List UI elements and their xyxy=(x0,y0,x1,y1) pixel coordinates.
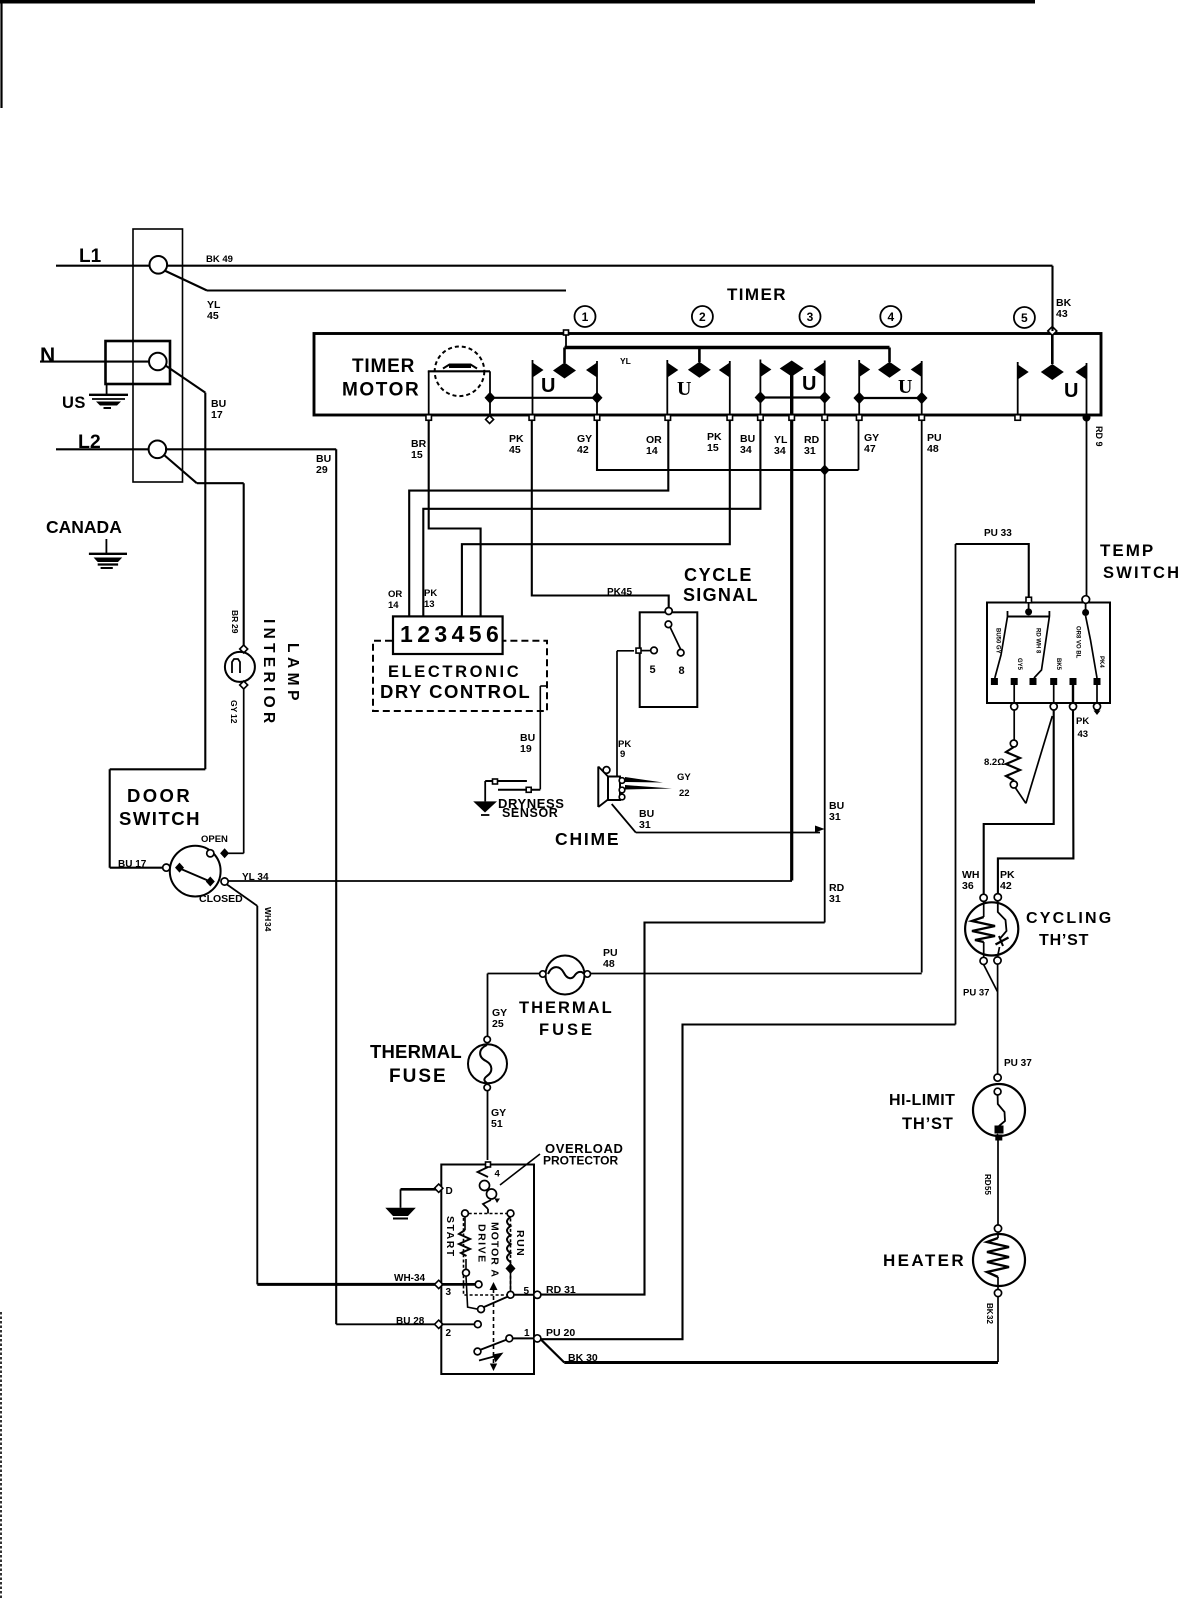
terminal hi-limit top xyxy=(994,1088,1001,1095)
wire WH-34 diagonal from door switch xyxy=(227,885,257,906)
chime needle 1 xyxy=(625,777,663,783)
terminal BK-43 on timer box top xyxy=(1048,327,1057,336)
terminal heater bottom xyxy=(994,1289,1001,1296)
wire ground link terminal D xyxy=(401,1188,437,1191)
hi-limit contact blob xyxy=(995,1126,1004,1134)
terminal GY-51 on motor box xyxy=(486,1162,491,1167)
terminal temp switch top left xyxy=(1026,597,1032,603)
thermal fuse F2 circle xyxy=(468,1044,507,1083)
svg-text:5: 5 xyxy=(1021,311,1028,325)
temp switch pad stubs to bottom edge xyxy=(1013,685,1015,703)
svg-text:48: 48 xyxy=(603,958,615,970)
timer terminal 5 circled xyxy=(1014,307,1035,328)
terminal on electrode xyxy=(493,779,498,784)
cycling heater resistor xyxy=(983,901,985,917)
mechanical linkage dashed xyxy=(493,1289,495,1366)
terminal cycle signal top xyxy=(665,608,672,615)
fuse2 element wave xyxy=(480,1045,491,1083)
wire BU-17 horizontal xyxy=(110,768,206,770)
svg-text:THERMAL: THERMAL xyxy=(370,1041,462,1062)
wire to terminal 1 xyxy=(512,1337,536,1339)
terminal lower blade contact xyxy=(474,1348,481,1355)
door switch closed contact xyxy=(206,877,215,887)
terminal 1 motor xyxy=(534,1335,541,1342)
ground motor xyxy=(400,1189,402,1208)
wire BU-31 from chime xyxy=(612,804,636,833)
terminal 5 junction xyxy=(507,1291,514,1298)
svg-text:PK: PK xyxy=(424,588,437,599)
svg-text:43: 43 xyxy=(1078,729,1089,740)
svg-text:36: 36 xyxy=(962,880,974,892)
door switch open contact xyxy=(207,850,214,857)
wire lamp down to open contact xyxy=(243,689,245,846)
svg-text:OR8 VO BL: OR8 VO BL xyxy=(1075,626,1081,659)
terminal temp switch bottom 3 xyxy=(1070,703,1077,710)
timer motor winding bar xyxy=(449,364,471,369)
wire V diagonal to WH-36 wire xyxy=(1026,716,1052,803)
svg-text:D: D xyxy=(446,1186,453,1197)
svg-text:DRIVE: DRIVE xyxy=(476,1224,488,1264)
timer switch S2 xyxy=(665,348,733,421)
svg-text:FUSE: FUSE xyxy=(389,1066,448,1087)
temp switch left bar xyxy=(1008,616,1050,618)
svg-text:RD 31: RD 31 xyxy=(546,1284,576,1296)
temp switch right common xyxy=(1082,609,1089,616)
svg-text:43: 43 xyxy=(1056,308,1068,320)
svg-text:15: 15 xyxy=(411,449,423,461)
timer switch S1 xyxy=(529,348,602,421)
chime xyxy=(598,767,620,808)
svg-text:FUSE: FUSE xyxy=(539,1021,595,1039)
svg-text:MOTOR: MOTOR xyxy=(342,380,420,401)
terminal N xyxy=(149,353,167,371)
junction run winding xyxy=(506,1263,516,1274)
wire timer motor horizontal xyxy=(428,370,490,372)
svg-text:42: 42 xyxy=(577,444,589,456)
wire YL-45 diagonal from L1 xyxy=(165,271,208,291)
wire YL-34 door to timer xyxy=(229,880,793,882)
wire WH-36 from temp switch xyxy=(984,710,1054,894)
temp switch contact pads xyxy=(991,678,998,685)
wire terminal 2 internal xyxy=(441,1323,474,1325)
svg-text:34: 34 xyxy=(774,445,786,457)
timer switch S3 xyxy=(755,360,831,421)
wire GY-47 drop xyxy=(858,420,860,470)
timer terminal 4 circled xyxy=(880,306,901,327)
terminal door common xyxy=(163,864,170,871)
svg-text:9: 9 xyxy=(620,749,625,760)
hi-limit thermostat circle xyxy=(973,1084,1025,1136)
svg-text:42: 42 xyxy=(1000,880,1012,892)
svg-text:TH’ST: TH’ST xyxy=(1039,932,1089,949)
scan artifact left edge top xyxy=(0,0,2,108)
svg-text:29: 29 xyxy=(316,464,328,476)
cycling thermostat circle xyxy=(965,902,1018,955)
terminal 3 motor xyxy=(435,1280,443,1288)
terminal 1 junction xyxy=(506,1335,513,1342)
dryness sensor electrode top xyxy=(485,780,527,782)
svg-text:2: 2 xyxy=(446,1328,452,1339)
svg-text:ELECTRONIC: ELECTRONIC xyxy=(388,663,521,681)
svg-text:45: 45 xyxy=(207,310,219,322)
wire YL-45 horizontal xyxy=(207,289,566,291)
svg-text:4: 4 xyxy=(887,310,894,324)
cycling contact cross xyxy=(996,938,1009,945)
svg-text:PROTECTOR: PROTECTOR xyxy=(543,1154,618,1168)
terminal on lower electrode xyxy=(526,787,531,792)
wire BK-30 heater to motor xyxy=(564,1361,998,1364)
svg-text:TEMP: TEMP xyxy=(1100,541,1155,560)
svg-text:5: 5 xyxy=(524,1286,530,1297)
svg-text:CLOSED: CLOSED xyxy=(199,893,243,905)
svg-text:BU50 GY: BU50 GY xyxy=(995,628,1001,654)
wire PU-48 drop xyxy=(921,420,923,973)
wire PU-20 lower run xyxy=(540,1025,956,1340)
terminal 2 motor xyxy=(435,1320,443,1328)
svg-text:48: 48 xyxy=(927,443,939,455)
wire PU-33 link xyxy=(956,544,1029,597)
wire cycle signal to chime PK-9 xyxy=(641,650,651,652)
svg-text:34: 34 xyxy=(263,922,273,932)
svg-text:THERMAL: THERMAL xyxy=(519,999,614,1017)
wire PK-45 to cycle signal xyxy=(532,420,669,608)
thermal fuse F1 circle xyxy=(546,956,585,995)
svg-text:25: 25 xyxy=(492,1018,504,1030)
svg-text:31: 31 xyxy=(829,893,841,905)
svg-text:LAMP: LAMP xyxy=(284,643,301,705)
terminal lamp top xyxy=(240,645,248,653)
wire L2 in xyxy=(56,448,150,450)
svg-text:CANADA: CANADA xyxy=(46,517,122,537)
wire BK-30 diagonal to motor terminal 1 xyxy=(540,1339,564,1363)
wire terminal 3 internal xyxy=(441,1283,475,1286)
wire BU-17 left vertical xyxy=(109,769,111,867)
svg-text:2: 2 xyxy=(699,310,706,324)
svg-text:WH: WH xyxy=(263,907,273,921)
cycle signal contact 8 xyxy=(677,649,684,656)
svg-text:8.2Ω: 8.2Ω xyxy=(984,757,1005,768)
svg-text:51: 51 xyxy=(491,1118,503,1130)
terminal heater top xyxy=(994,1225,1001,1232)
wire BR-15 motor left leg xyxy=(428,371,430,415)
ground US xyxy=(106,384,108,394)
terminal block strip xyxy=(133,229,183,482)
wire RD-31 vertical xyxy=(824,420,826,923)
cycle signal box xyxy=(640,612,698,707)
terminal cycling bottom left xyxy=(980,957,987,964)
svg-text:PU 37: PU 37 xyxy=(963,988,989,999)
terminal fuse2 top xyxy=(484,1036,490,1042)
temp switch blade mid xyxy=(1034,617,1049,679)
heater element zigzag xyxy=(997,1232,999,1238)
svg-text:PK45: PK45 xyxy=(607,587,632,598)
wire lamp feed diagonal from L2 xyxy=(164,455,197,484)
ground dryness sensor xyxy=(473,801,497,812)
svg-text:START: START xyxy=(444,1216,456,1258)
wire BR-29 lamp vertical xyxy=(243,483,245,646)
svg-text:SWITCH: SWITCH xyxy=(1103,564,1181,582)
svg-text:4: 4 xyxy=(495,1169,501,1180)
overload leader line xyxy=(500,1154,540,1185)
svg-text:DRY CONTROL: DRY CONTROL xyxy=(380,681,531,702)
wire RD-55 hi-limit to heater xyxy=(997,1140,999,1225)
cycle signal switch pivot xyxy=(665,621,672,628)
terminal cycle signal left xyxy=(636,648,641,653)
svg-text:29: 29 xyxy=(230,624,240,634)
svg-text:CYCLING: CYCLING xyxy=(1026,910,1113,927)
svg-text:BR: BR xyxy=(230,610,240,622)
neutral terminal box xyxy=(106,341,171,384)
svg-text:55: 55 xyxy=(983,1186,992,1195)
svg-text:TIMER: TIMER xyxy=(352,356,415,377)
terminal chime right 1 xyxy=(619,778,625,784)
wire RD-9 drop to temp switch xyxy=(1086,420,1088,597)
svg-text:TIMER: TIMER xyxy=(727,285,787,304)
svg-text:TH’ST: TH’ST xyxy=(902,1115,954,1133)
chime needle 2 xyxy=(625,785,672,790)
terminal fuse1 left xyxy=(540,971,546,977)
svg-text:U: U xyxy=(802,373,816,395)
svg-text:3: 3 xyxy=(446,1287,452,1298)
svg-text:OPEN: OPEN xyxy=(201,834,228,845)
svg-text:INTERIOR: INTERIOR xyxy=(260,619,277,727)
terminal run winding top xyxy=(507,1210,514,1217)
svg-text:L1: L1 xyxy=(79,246,102,267)
svg-text:U: U xyxy=(677,378,691,400)
svg-text:WH-34: WH-34 xyxy=(394,1273,426,1284)
svg-text:RD WH 8: RD WH 8 xyxy=(1035,628,1041,654)
wire YL-34 vertical thick xyxy=(790,420,793,881)
svg-text:32: 32 xyxy=(985,1315,994,1324)
wire L1 in xyxy=(56,265,150,267)
svg-text:U: U xyxy=(541,375,555,397)
door switch blade xyxy=(181,869,209,881)
svg-text:N: N xyxy=(40,344,55,367)
wire resistor to V tip xyxy=(1016,788,1026,803)
wire PU-37 down xyxy=(997,964,999,1074)
motor winding inner box xyxy=(464,1214,511,1296)
svg-text:CYCLE: CYCLE xyxy=(684,565,753,585)
terminal on timer box top sw1 xyxy=(564,330,569,335)
svg-text:SENSOR: SENSOR xyxy=(502,806,558,820)
svg-text:DOOR: DOOR xyxy=(127,785,192,806)
wire PK-42 from temp switch xyxy=(998,710,1074,894)
svg-text:U: U xyxy=(898,376,912,398)
wire to bias resistor xyxy=(1013,710,1015,740)
timer switch S5 xyxy=(1015,332,1091,422)
start winding zigzag xyxy=(464,1217,466,1231)
resistor R 8.2 ohm zigzag xyxy=(1006,747,1020,781)
terminal lamp bottom xyxy=(240,681,248,689)
terminal L2 xyxy=(149,441,167,459)
junction arrow BU-31 into RD-31 wire xyxy=(815,826,825,833)
terminal temp switch bottom stub xyxy=(1094,703,1101,710)
svg-text:HEATER: HEATER xyxy=(883,1251,966,1270)
svg-text:PK: PK xyxy=(1076,716,1089,727)
wire RD-31 lower run xyxy=(540,923,825,1295)
wire lamp to open contact xyxy=(229,852,244,854)
svg-text:RUN: RUN xyxy=(514,1230,526,1257)
lamp filament xyxy=(232,659,240,673)
terminal hi-limit bottom xyxy=(995,1135,1002,1141)
terminal L1 xyxy=(150,256,168,274)
cycle signal blade xyxy=(670,627,681,649)
svg-text:3: 3 xyxy=(807,310,814,324)
timer terminal 1 circled xyxy=(575,306,596,327)
motor switch blade upper xyxy=(484,1297,508,1308)
terminal fuse1 right xyxy=(584,971,590,977)
temp switch box xyxy=(987,603,1110,704)
wire motor right leg xyxy=(489,371,491,415)
svg-text:US: US xyxy=(62,394,86,412)
svg-text:123456: 123456 xyxy=(400,621,503,647)
wire BU-29 L2 to motor terminal 2 xyxy=(165,448,336,450)
svg-text:47: 47 xyxy=(864,443,876,455)
junction RD31/GY42 xyxy=(820,465,830,476)
temp switch left common xyxy=(1025,608,1032,615)
terminal D motor xyxy=(435,1184,443,1192)
svg-text:MOTOR A: MOTOR A xyxy=(489,1222,501,1278)
wire WH-34 vertical xyxy=(256,906,258,1285)
wire BU-29 vertical xyxy=(335,449,337,1324)
svg-text:YL 34: YL 34 xyxy=(242,872,269,883)
wire GY-42 cross link xyxy=(597,420,859,470)
terminal chime top xyxy=(603,767,610,774)
terminal chime bottom xyxy=(619,794,625,800)
timer motor M1 dashed circle xyxy=(435,347,485,397)
temp switch blade left xyxy=(995,617,1008,679)
svg-text:PK4: PK4 xyxy=(1098,656,1104,668)
terminal cycling top left xyxy=(980,894,987,901)
wire BU-34 to dry control pin2 xyxy=(423,420,760,616)
svg-text:RD 9: RD 9 xyxy=(1094,426,1104,447)
motor box xyxy=(441,1165,534,1375)
svg-text:31: 31 xyxy=(639,819,651,831)
svg-text:34: 34 xyxy=(740,444,752,456)
terminal cycling top right xyxy=(994,894,1001,901)
terminal resistor top xyxy=(1010,740,1017,747)
terminal temp switch top right xyxy=(1082,596,1090,604)
svg-text:BK5: BK5 xyxy=(1055,658,1061,671)
terminal 2 contact xyxy=(474,1321,481,1328)
svg-text:5: 5 xyxy=(650,664,656,676)
terminal temp switch bottom 2 xyxy=(1050,703,1057,710)
svg-text:OR: OR xyxy=(388,589,402,600)
wire GY-51 fuse2 to motor xyxy=(487,1091,489,1160)
svg-text:13: 13 xyxy=(424,599,435,610)
timer terminal 3 circled xyxy=(800,306,821,327)
centrifugal arrow xyxy=(493,1353,504,1363)
wire PU-33 down to cycling area xyxy=(955,544,957,1025)
terminal start contact upper xyxy=(475,1281,482,1288)
electronic dry control terminal strip 1-6 xyxy=(393,616,503,654)
svg-text:14: 14 xyxy=(646,445,658,457)
svg-text:PU 33: PU 33 xyxy=(984,528,1012,539)
svg-text:GY: GY xyxy=(229,700,239,713)
terminal chime right 2 xyxy=(619,787,625,793)
wire lamp feed horizontal xyxy=(197,482,244,484)
svg-text:U: U xyxy=(1064,380,1078,402)
wire PU-48 horizontal to thermal fuse xyxy=(588,973,922,975)
svg-text:YL: YL xyxy=(620,356,631,366)
svg-text:19: 19 xyxy=(520,743,532,755)
wire BU-17 into door switch xyxy=(110,867,162,869)
svg-text:HI-LIMIT: HI-LIMIT xyxy=(889,1092,955,1109)
overload protector xyxy=(478,1167,489,1177)
svg-text:31: 31 xyxy=(804,445,816,457)
wire OR-14 to dry control pin1 xyxy=(409,420,668,616)
wire YL bus in timer xyxy=(565,332,567,348)
wire BU-17 vertical xyxy=(204,393,206,770)
overload to windings xyxy=(487,1209,489,1214)
cycle signal contact 5 xyxy=(651,647,658,654)
wire lower link motor to switch1 xyxy=(490,397,597,399)
timer switch S4 xyxy=(853,348,927,421)
motor switch blade lower xyxy=(479,1340,508,1351)
svg-text:BK 30: BK 30 xyxy=(568,1352,598,1364)
terminal 5 motor xyxy=(534,1291,541,1298)
scan artifact left edge bottom xyxy=(0,1312,2,1600)
svg-text:BU 17: BU 17 xyxy=(118,859,147,870)
svg-text:RD: RD xyxy=(983,1174,992,1186)
svg-text:8: 8 xyxy=(679,665,685,677)
svg-text:PU 37: PU 37 xyxy=(1004,1058,1032,1069)
svg-text:GY: GY xyxy=(677,772,691,783)
svg-text:12: 12 xyxy=(229,714,239,724)
wire WH-34 to motor terminal 3 xyxy=(257,1283,436,1286)
interior lamp DS1 circle xyxy=(225,652,255,682)
terminal hi-limit outer xyxy=(994,1074,1001,1081)
svg-text:1: 1 xyxy=(582,310,589,324)
junction motor-switch1 xyxy=(485,392,496,404)
svg-text:15: 15 xyxy=(707,442,719,454)
scan artifact top bar xyxy=(0,0,1035,4)
wire BU-19 from dry control xyxy=(540,685,547,687)
wire sensor to ground xyxy=(484,781,486,801)
terminal cycling bottom right xyxy=(994,957,1001,964)
svg-text:BK 49: BK 49 xyxy=(206,254,233,265)
svg-text:22: 22 xyxy=(679,788,690,799)
svg-text:17: 17 xyxy=(211,409,223,421)
svg-text:1: 1 xyxy=(524,1328,530,1339)
svg-text:31: 31 xyxy=(829,811,841,823)
wire BK-49 L1 to timer switch 5 xyxy=(167,265,1053,267)
terminal start contact lower xyxy=(478,1306,485,1313)
terminal start winding bottom xyxy=(463,1269,470,1276)
terminal start winding top xyxy=(462,1210,469,1217)
terminal BR-15 on timer box xyxy=(426,415,432,421)
wire fuse1 to fuse2 xyxy=(488,973,540,975)
timer box xyxy=(314,334,1101,416)
heater circle xyxy=(973,1234,1025,1286)
fuse1 element wave xyxy=(548,967,584,978)
svg-text:14: 14 xyxy=(388,600,399,611)
wire BR-15 to dry control pin5 xyxy=(429,420,481,616)
svg-text:PU 20: PU 20 xyxy=(546,1327,575,1339)
terminal stub below motor right leg xyxy=(486,416,494,424)
terminal temp switch bottom 1 xyxy=(1011,703,1018,710)
wire N in xyxy=(40,361,150,363)
wire cycling join xyxy=(984,965,998,992)
wire PK-15 to dry control pin4 xyxy=(462,420,730,616)
wire BK-43 down to timer xyxy=(1051,266,1053,331)
svg-text:GY5: GY5 xyxy=(1016,658,1022,671)
wire BU-28 into motor xyxy=(336,1323,434,1325)
wire BK heater down xyxy=(997,1297,999,1363)
electronic dry control dashed box xyxy=(373,641,547,711)
svg-text:CHIME: CHIME xyxy=(555,829,620,849)
svg-text:SIGNAL: SIGNAL xyxy=(683,585,759,605)
